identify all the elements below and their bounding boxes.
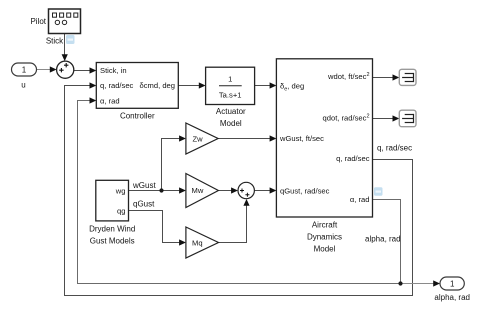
- svg-text:alpha, rad: alpha, rad: [365, 235, 401, 244]
- wire alpha to outport: [401, 283, 434, 285]
- arrow into Aircraft wGust: [270, 135, 277, 141]
- svg-text:1: 1: [450, 280, 455, 289]
- arrow into Sum2 left: [231, 187, 238, 193]
- arrow into Controller in1: [90, 67, 97, 73]
- arrow into Zw: [179, 135, 186, 141]
- wire Dryden wg to Mw with junction: [129, 190, 180, 192]
- svg-text:wg: wg: [115, 186, 126, 195]
- svg-text:Actuator: Actuator: [216, 107, 246, 116]
- wire Mq right and up to Sum2: [219, 205, 247, 243]
- gain Mq: [186, 227, 219, 258]
- sum Sum2: [238, 182, 254, 198]
- inport 1 u: [12, 63, 37, 76]
- arrow into Aircraft qGust: [270, 187, 277, 193]
- wire alpha feedback: Aircraft alpha output right, down, left, up, into Controller in3: [78, 101, 401, 284]
- svg-text:qg: qg: [117, 207, 125, 216]
- arrow into Controller in2: [90, 82, 97, 88]
- block Aircraft Dynamics Model: [276, 59, 372, 217]
- wire Dryden qg down to Mq: [129, 211, 180, 243]
- arrow into outport: [433, 280, 440, 286]
- arrow into Aircraft de: [270, 82, 277, 88]
- wire Aircraft wdot to Scope1: [373, 77, 393, 79]
- svg-text:α, rad: α, rad: [350, 195, 370, 204]
- arrow into Mw: [179, 187, 186, 193]
- svg-text:Ta.s+1: Ta.s+1: [219, 90, 242, 99]
- svg-text:wGust: wGust: [132, 181, 156, 190]
- wire Zw to Aircraft wGust: [218, 138, 270, 140]
- block Dryden Wind Gust Models: [96, 180, 129, 221]
- sum Sum1: [57, 61, 74, 78]
- wire u to Sum: [37, 69, 51, 71]
- node alpha junction: [398, 281, 402, 285]
- arrow into Controller in3: [90, 97, 97, 103]
- svg-text:Zw: Zw: [193, 134, 204, 143]
- wire q feedback: Aircraft q output right, down, bottom, left, up, into Controller in2: [65, 86, 413, 296]
- svg-text:Stick, in: Stick, in: [100, 66, 127, 75]
- svg-text:alpha, rad: alpha, rad: [434, 293, 470, 302]
- wire Mw to Sum2: [218, 190, 231, 192]
- wire Actuator to Aircraft: [255, 85, 270, 87]
- badge signal-logging alpha: [374, 187, 383, 196]
- outport 1 alpha, rad: [440, 277, 464, 290]
- svg-text:qGust: qGust: [133, 199, 155, 208]
- svg-text:Stick: Stick: [46, 37, 64, 46]
- svg-text:δcmd, deg: δcmd, deg: [140, 81, 175, 90]
- svg-text:1: 1: [22, 66, 27, 75]
- svg-text:α, rad: α, rad: [100, 97, 120, 106]
- svg-text:Mw: Mw: [192, 186, 204, 195]
- svg-text:wdot, ft/sec2: wdot, ft/sec2: [327, 72, 369, 81]
- node wGust junction: [159, 188, 163, 192]
- svg-text:Model: Model: [220, 119, 242, 128]
- svg-text:q, rad/sec: q, rad/sec: [336, 154, 370, 163]
- svg-text:qdot, rad/sec2: qdot, rad/sec2: [323, 114, 370, 123]
- gain Mw: [186, 174, 219, 208]
- scope viewer 2: [399, 110, 416, 127]
- svg-text:Dryden Wind: Dryden Wind: [89, 225, 135, 234]
- badge signal-logging Stick: [66, 35, 75, 44]
- arrow into Actuator: [199, 82, 206, 88]
- svg-text:wGust, ft/sec: wGust, ft/sec: [279, 134, 324, 143]
- block Pilot (signal generator): [49, 9, 81, 34]
- svg-text:qGust, rad/sec: qGust, rad/sec: [280, 186, 330, 195]
- svg-text:Gust Models: Gust Models: [90, 237, 135, 246]
- block Controller: [96, 63, 178, 109]
- wire Pilot to Sum: [64, 34, 66, 56]
- gain Zw: [186, 123, 218, 154]
- svg-text:Pilot: Pilot: [30, 17, 46, 26]
- arrow into Mq: [179, 239, 186, 245]
- arrow into Sum left: [50, 66, 57, 72]
- scope viewer 1: [399, 69, 416, 85]
- svg-text:Aircraft: Aircraft: [312, 221, 338, 230]
- arrow into Scope1: [393, 74, 400, 80]
- wire junction up to Zw: [162, 139, 180, 191]
- svg-text:u: u: [21, 81, 25, 90]
- arrow into Sum top: [62, 54, 68, 61]
- wire Sum to Controller in1: [74, 70, 90, 72]
- arrow into Sum2 bottom: [243, 199, 249, 206]
- svg-text:q, rad/sec: q, rad/sec: [100, 81, 134, 90]
- svg-text:Model: Model: [314, 245, 336, 254]
- wire Controller to Actuator: [178, 85, 199, 87]
- wire Aircraft qdot to Scope2: [373, 118, 393, 120]
- block Actuator Model (transfer fcn): [206, 67, 255, 104]
- svg-text:Dynamics: Dynamics: [307, 233, 342, 242]
- svg-text:Controller: Controller: [120, 111, 155, 120]
- svg-text:q, rad/sec: q, rad/sec: [377, 144, 412, 153]
- wire Sum2 to Aircraft qGust: [254, 190, 269, 192]
- svg-text:Mq: Mq: [192, 238, 203, 247]
- arrow into Scope2: [393, 115, 400, 121]
- svg-text:1: 1: [228, 74, 232, 83]
